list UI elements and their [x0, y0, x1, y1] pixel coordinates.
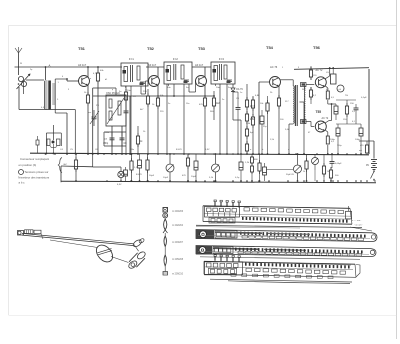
- resistor mid3: [187, 155, 189, 158]
- svg-text:2k: 2k: [270, 92, 273, 94]
- cam symbol 4: [164, 236, 167, 247]
- switch strip 1 upper contacts: [244, 208, 250, 211]
- switch strip 4 right bracket: [356, 265, 360, 278]
- switch strip 2 body: [196, 230, 377, 242]
- wire T54 base feed: [259, 81, 270, 83]
- svg-text:3,3k: 3,3k: [246, 123, 251, 125]
- svg-text:Tensions prises sur: Tensions prises sur: [25, 170, 49, 174]
- switch strip 4 comb: [244, 262, 351, 265]
- network bus: [336, 123, 361, 125]
- switch strip 4 inner line: [205, 267, 353, 270]
- svg-text:4µF: 4µF: [250, 132, 254, 134]
- resistor mid2: [131, 158, 133, 161]
- svg-text:100µ: 100µ: [330, 139, 336, 141]
- svg-text:0,1: 0,1: [352, 111, 356, 113]
- switch strip 1 comb: [241, 216, 350, 219]
- svg-text:1,2k: 1,2k: [245, 162, 250, 164]
- oscillator coil box OSC: [106, 95, 126, 126]
- circle mid pot: [312, 158, 319, 165]
- page edge frame (scan border): [9, 25, 397, 27]
- diode load wire: [232, 96, 234, 120]
- wire x67 down: [66, 113, 68, 154]
- svg-text:TH: TH: [345, 95, 348, 97]
- switch strip 4 base line: [210, 279, 352, 283]
- wire bottom return: [19, 109, 75, 111]
- svg-text:1: 1: [282, 67, 284, 69]
- svg-text:150: 150: [343, 119, 347, 121]
- svg-text:Connecteur remplaçant: Connecteur remplaçant: [20, 157, 49, 161]
- base bias resistor T54: [267, 100, 269, 103]
- resistor R5 1k: [137, 133, 139, 136]
- bias resistor output2: [310, 87, 312, 90]
- output electrolytic 1: [336, 128, 340, 136]
- svg-text:100µ: 100µ: [355, 139, 361, 141]
- svg-text:AC 76: AC 76: [270, 65, 278, 69]
- svg-text:a b c: a b c: [19, 181, 26, 185]
- svg-text:WD: WD: [302, 89, 306, 91]
- svg-text:1k: 1k: [152, 104, 155, 106]
- wire R3 to bus: [87, 106, 89, 154]
- svg-text:A: A: [49, 64, 51, 68]
- svg-text:860: 860: [254, 159, 258, 161]
- transistor T53: [196, 76, 207, 87]
- transistor T55 (lower output): [315, 121, 326, 132]
- mech link: [111, 257, 129, 263]
- IF transformer FI1: [121, 63, 148, 86]
- svg-text:10µF: 10µF: [191, 176, 197, 178]
- svg-text:6,3V: 6,3V: [205, 149, 210, 151]
- svg-text:40k: 40k: [100, 70, 104, 72]
- cam symbol 5: [164, 255, 167, 266]
- wire output right rail: [368, 69, 370, 154]
- AGC line middle: [174, 95, 214, 97]
- osc box top lead: [115, 88, 117, 95]
- svg-text:nr 209/210: nr 209/210: [172, 273, 184, 276]
- AGC resistor chain: [246, 84, 248, 100]
- driver sec centre tap: [300, 101, 305, 103]
- coupling cap C30: [334, 106, 338, 114]
- switch strip 3 left block: [196, 246, 212, 255]
- switch strip 2 contact row: [240, 232, 242, 235]
- rail line above strip4: [200, 257, 360, 260]
- driver sec bottom lead: [306, 121, 311, 123]
- resistor mid1: [75, 157, 77, 160]
- T54 bias resistors: [252, 97, 254, 100]
- decoupling cap C10: [124, 110, 129, 112]
- osc winding b: [109, 111, 112, 120]
- driver transformer primary: [293, 86, 294, 123]
- switch strip 1 inner line: [204, 214, 351, 217]
- T52 bias resistor: [147, 93, 149, 96]
- svg-text:W: W: [20, 63, 22, 65]
- svg-text:3: 3: [298, 67, 300, 69]
- svg-text:a ~~ am~: a ~~ am~: [352, 220, 362, 222]
- T51 collector wire: [87, 67, 89, 77]
- output jack: [337, 85, 344, 92]
- FI1 bottom leads: [125, 86, 127, 90]
- T51 emitter wire: [87, 85, 89, 95]
- svg-text:47: 47: [308, 132, 311, 134]
- wire base T51: [66, 79, 68, 81]
- trimmer C8: [120, 137, 125, 139]
- svg-text:9V: 9V: [366, 164, 369, 167]
- T52 collector wire: [157, 67, 159, 77]
- svg-text:c: c: [288, 149, 290, 151]
- svg-text:6: 6: [62, 76, 64, 78]
- base bias resistor R1: [97, 70, 99, 73]
- wire ntc: [366, 141, 368, 145]
- switch strip 1 bottom edge: [203, 222, 352, 225]
- svg-text:5n: 5n: [168, 103, 170, 105]
- svg-text:150: 150: [350, 103, 354, 105]
- T53 emitter wire: [204, 85, 206, 98]
- electrolytic mid5: [263, 167, 267, 175]
- svg-text:AF 117: AF 117: [78, 63, 87, 67]
- detector diode OA79: [232, 84, 234, 88]
- T52 emitter wire: [157, 85, 159, 98]
- svg-text:a ~ ~: a ~ ~: [358, 228, 363, 230]
- AGC line left: [93, 95, 174, 97]
- thermistor network: [346, 103, 348, 106]
- T55 collector wire: [325, 121, 329, 124]
- svg-text:OA 79: OA 79: [236, 88, 243, 91]
- switch strip 4 dot row: [245, 263, 247, 266]
- resistor mid8: [330, 167, 332, 170]
- svg-text:100: 100: [280, 119, 284, 121]
- svg-text:nr 203/207: nr 203/207: [172, 241, 184, 244]
- svg-text:l'émetteur des transistors: l'émetteur des transistors: [18, 176, 50, 180]
- cam symbol 2: [163, 213, 168, 218]
- wire x130: [129, 96, 131, 154]
- svg-text:AF 117: AF 117: [195, 63, 204, 67]
- switch strip 3 body: [196, 246, 376, 257]
- svg-text:4k7: 4k7: [140, 109, 144, 111]
- svg-text:B 470: B 470: [136, 174, 142, 176]
- svg-text:500: 500: [335, 175, 339, 177]
- svg-text:0,1: 0,1: [352, 121, 356, 123]
- wire x75 down: [74, 110, 76, 154]
- resistor mid5b: [259, 160, 261, 163]
- svg-text:470: 470: [182, 175, 186, 177]
- secondary cord: [50, 240, 98, 248]
- svg-text:517: 517: [285, 101, 289, 103]
- cam symbol 3: [164, 219, 167, 230]
- idler roller: [132, 239, 142, 248]
- svg-text:T55: T55: [316, 110, 322, 114]
- switch strip 1 plungers: [214, 202, 216, 207]
- T52 emitter resistor: [157, 95, 159, 98]
- TR1 top lead: [45, 67, 47, 80]
- TR1 sec top lead: [54, 75, 56, 84]
- svg-text:AC 72: AC 72: [316, 69, 324, 72]
- decoupling resistor R6: [125, 89, 127, 92]
- switch strip 2 lower rects: [242, 235, 248, 238]
- svg-text:1k: 1k: [303, 171, 306, 173]
- svg-text:p: p: [112, 89, 114, 91]
- driver sec top lead: [306, 84, 314, 86]
- svg-text:470: 470: [360, 145, 364, 147]
- svg-text:FI 1: FI 1: [129, 57, 134, 61]
- wire coil loop: [23, 82, 25, 94]
- driver transformer secondary: [304, 86, 305, 123]
- T55 emitter wire: [325, 130, 328, 132]
- transformer TR1 core bar: [48, 81, 51, 110]
- battery 9V: [373, 141, 375, 159]
- svg-text:C4: C4: [60, 149, 64, 151]
- svg-text:700µ: 700µ: [337, 145, 342, 147]
- svg-text:0,04µF: 0,04µF: [335, 163, 342, 165]
- tone potentiometer P2: [212, 164, 220, 172]
- svg-text:FI 2: FI 2: [173, 57, 178, 61]
- svg-text:T56: T56: [313, 45, 321, 50]
- svg-text:2p: 2p: [30, 69, 33, 71]
- wire FI1 to T52 base: [141, 93, 146, 95]
- transformer TR1 right winding ticks: [52, 83, 55, 85]
- speaker LS: [331, 74, 337, 84]
- T56 collector wire: [325, 76, 330, 79]
- svg-text:10n: 10n: [167, 87, 171, 89]
- cap mid: [330, 161, 335, 163]
- svg-text:10µF: 10µF: [163, 177, 169, 179]
- svg-text:T53: T53: [198, 46, 206, 51]
- svg-text:0,1µF: 0,1µF: [361, 97, 367, 99]
- switch strip 4 top edge: [204, 261, 355, 264]
- IF transformer FI2: [164, 62, 192, 84]
- wire coil to transformer: [26, 79, 44, 81]
- svg-text:a: a: [250, 149, 252, 151]
- driver sec bottom box: [301, 120, 307, 124]
- pilot lamp: [118, 171, 124, 177]
- svg-text:5: 5: [57, 99, 59, 101]
- feedback wire: [267, 169, 294, 171]
- svg-text:1,5k: 1,5k: [270, 139, 275, 141]
- svg-text:nr 205/208: nr 205/208: [172, 258, 184, 261]
- detector filter cap C9: [237, 92, 239, 107]
- svg-text:en position (b): en position (b): [19, 163, 37, 167]
- bracket a-c: [58, 158, 62, 173]
- svg-text:nst: nst: [359, 149, 362, 152]
- wire mast down: [18, 87, 20, 110]
- knob cylinder: [136, 250, 146, 260]
- svg-text:FI 3: FI 3: [219, 57, 224, 61]
- svg-text:470: 470: [199, 104, 203, 106]
- svg-text:nr 202/204: nr 202/204: [172, 224, 184, 227]
- svg-text:1: 1: [58, 82, 60, 84]
- switch strip 3 contact row: [235, 248, 237, 251]
- supply bus (main rail): [30, 153, 369, 155]
- svg-text:3: 3: [68, 89, 70, 91]
- resistor mid7: [323, 163, 325, 166]
- resistor mid5a: [251, 156, 253, 157]
- svg-text:16µF: 16µF: [149, 175, 155, 177]
- volume potentiometer P1: [166, 164, 174, 172]
- svg-text:C7: C7: [104, 139, 108, 141]
- svg-text:220: 220: [143, 91, 147, 93]
- FI3 bottom leads: [219, 84, 221, 154]
- IF transformer FI3: [211, 62, 235, 84]
- T54 collector: [279, 79, 280, 81]
- feedback pot P3: [294, 165, 302, 173]
- resistor mid2b: [147, 157, 149, 160]
- svg-text:50µF 6V: 50µF 6V: [286, 174, 295, 176]
- wire lower bus left end: [60, 166, 62, 182]
- rod left clamp: [18, 231, 24, 236]
- osc winding c: [118, 101, 121, 115]
- svg-text:1k: 1k: [143, 131, 146, 133]
- wire x241: [240, 120, 242, 154]
- svg-text:6,3V: 6,3V: [117, 184, 122, 186]
- svg-text:~un am~: ~un am~: [354, 225, 363, 227]
- svg-text:5,1k: 5,1k: [209, 177, 214, 179]
- svg-text:C8: C8: [124, 143, 128, 145]
- switch: [373, 170, 375, 172]
- svg-text:C5: C5: [70, 149, 74, 151]
- svg-text:b: b: [262, 149, 264, 151]
- svg-text:25µ: 25µ: [263, 126, 267, 128]
- resistor mid6: [306, 158, 308, 161]
- osc box leads to bus: [111, 126, 113, 154]
- trimmer C7: [110, 137, 115, 139]
- svg-text:5n: 5n: [119, 91, 122, 93]
- svg-text:1k: 1k: [84, 92, 87, 94]
- driver transformer core: [294, 85, 296, 126]
- svg-text:T51: T51: [78, 46, 86, 51]
- switch strip 1 lower contacts: [242, 217, 244, 220]
- aerial tuning coil (variable): [18, 76, 23, 81]
- svg-text:PO: PO: [96, 105, 99, 107]
- switch strip 4 left block: [205, 262, 243, 275]
- svg-text:1k: 1k: [140, 141, 143, 143]
- drive pulley disc: [93, 242, 116, 265]
- cam base: [164, 266, 166, 272]
- top rail output: [294, 68, 369, 70]
- svg-text:AC 72: AC 72: [322, 117, 329, 120]
- wire FI2 to T53 base: [189, 91, 196, 93]
- note circle: [19, 170, 24, 175]
- cam symbol 1: [163, 208, 168, 213]
- switch strip 1 left block: [205, 207, 240, 218]
- junction dots: [45, 153, 47, 155]
- svg-text:C8a: C8a: [130, 149, 135, 151]
- oscillator tuning cap C2: [93, 110, 95, 116]
- svg-text:B 470: B 470: [176, 149, 182, 151]
- T53 bias resistor: [213, 95, 215, 98]
- emitter resistor R3: [87, 92, 89, 95]
- output electrolytic 2: [359, 128, 363, 136]
- switch strip 4 bottom edge: [204, 274, 356, 277]
- switch strip 3 lower rects: [238, 251, 244, 253]
- driver primary bottom lead: [289, 123, 293, 125]
- svg-text:T52: T52: [147, 46, 155, 51]
- bottom bus right end: [374, 180, 376, 182]
- electrolytic mid1: [124, 170, 128, 176]
- top rail stage2: [146, 66, 164, 68]
- svg-text:C9: C9: [236, 98, 240, 100]
- svg-text:µV: µV: [339, 89, 342, 91]
- svg-text:T54: T54: [266, 45, 274, 50]
- strip2 tail wire: [350, 227, 372, 231]
- svg-text:0,1µ: 0,1µ: [235, 177, 240, 179]
- svg-text:10k: 10k: [260, 103, 264, 105]
- svg-text:0,5: 0,5: [331, 97, 335, 99]
- resistor NTC: [366, 144, 368, 146]
- T53 collector wire: [204, 67, 206, 77]
- driver sec top box: [301, 83, 307, 87]
- top rail stage1: [15, 66, 123, 68]
- wire x92.7 vertical: [92, 88, 94, 154]
- cam link: [164, 233, 166, 236]
- transformer TR1 left winding ticks: [45, 80, 48, 82]
- svg-text:0,5: 0,5: [331, 141, 335, 143]
- svg-text:120: 120: [313, 75, 317, 77]
- T54 emitter: [278, 86, 280, 98]
- osc winding a: [109, 99, 112, 108]
- svg-text:2n: 2n: [222, 99, 224, 101]
- svg-text:a: a: [90, 78, 92, 80]
- switch strip 1 top edge: [203, 206, 350, 209]
- switch strip 4 plungers: [214, 256, 216, 261]
- svg-text:OSC PO-GO: OSC PO-GO: [106, 92, 120, 95]
- TR1 sec bottom lead: [54, 104, 56, 113]
- top rail stage3: [192, 66, 211, 68]
- svg-text:8,2: 8,2: [313, 95, 317, 97]
- osc arrow: [107, 98, 124, 124]
- transistor T54: [270, 77, 281, 88]
- strip3 dense segment: [213, 248, 258, 249]
- switch strip 4 contacts: [246, 268, 252, 271]
- transistor T52: [149, 76, 160, 87]
- tuning gang cluster C4 C5: [46, 132, 61, 134]
- svg-text:220: 220: [160, 111, 164, 113]
- antenna: [18, 53, 20, 75]
- wire trimmer row: [104, 131, 126, 133]
- T56 emitter wire: [325, 86, 328, 88]
- lamp branch wire: [92, 154, 94, 167]
- electrolytic mid2: [138, 160, 142, 168]
- output coupling node: [328, 103, 332, 105]
- svg-text:AF 117: AF 117: [148, 63, 157, 67]
- dial drive rod: [22, 233, 134, 244]
- bias cap: [260, 116, 264, 124]
- strip2 dense segment: [215, 232, 262, 233]
- electrolytic mid4: [239, 162, 243, 170]
- FI2 bottom leads: [166, 84, 168, 154]
- svg-text:osc: osc: [88, 112, 92, 114]
- electrolytic mid3: [194, 161, 198, 170]
- svg-text:GO: GO: [118, 105, 122, 107]
- ground bus (lower rail): [61, 181, 376, 183]
- switch strip 1 right bracket: [346, 211, 352, 219]
- svg-text:1n: 1n: [240, 92, 242, 94]
- svg-text:LS: LS: [326, 72, 329, 74]
- long vertical x259: [258, 82, 260, 154]
- svg-text:10n: 10n: [186, 103, 189, 105]
- rail line under strip1: [196, 225, 362, 227]
- transistor T51: [79, 76, 90, 87]
- svg-text:b1: b1: [105, 79, 108, 81]
- transistor T56 (upper output): [315, 77, 326, 88]
- bias resistor output1: [310, 67, 312, 70]
- switch strip 2 left block: [196, 230, 214, 240]
- svg-text:nr 200/206: nr 200/206: [172, 210, 184, 213]
- T56 emitter resistor: [327, 90, 329, 92]
